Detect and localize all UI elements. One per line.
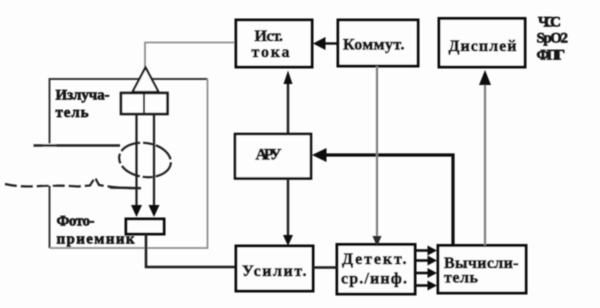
svg-text:Детект.: Детект.: [342, 251, 407, 268]
svg-text:приемник: приемник: [57, 232, 135, 248]
svg-text:Фото-: Фото-: [57, 214, 95, 230]
svg-text:тель: тель: [56, 105, 89, 121]
svg-text:ФПГ: ФПГ: [537, 48, 566, 64]
svg-text:SpO2: SpO2: [537, 31, 569, 47]
svg-text:тель: тель: [444, 270, 479, 287]
svg-text:Коммут.: Коммут.: [343, 37, 405, 54]
svg-text:ср./инф.: ср./инф.: [341, 271, 407, 288]
svg-text:ЧСС: ЧСС: [538, 15, 561, 31]
svg-text:Излуча-: Излуча-: [56, 88, 110, 104]
svg-text:Усилит.: Усилит.: [242, 263, 307, 280]
svg-text:Ист.: Ист.: [255, 28, 284, 45]
svg-text:Дисплей: Дисплей: [449, 38, 517, 55]
svg-text:АРУ: АРУ: [256, 147, 282, 164]
svg-text:тока: тока: [252, 44, 290, 61]
